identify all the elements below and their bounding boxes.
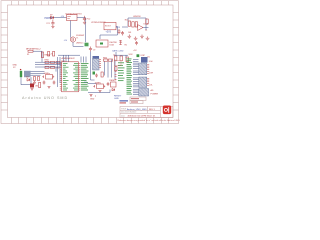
ground: [31, 89, 34, 91]
net labels (IC3 right): [81, 63, 89, 90]
voltage regulator IC1 NCP1117ST50T3G: [66, 13, 83, 20]
title block: [118, 106, 197, 123]
reset button S1: [110, 80, 117, 87]
power section: [45, 13, 118, 51]
IC ATmega16U2 IC3: [61, 57, 79, 92]
svg-text:GND: GND: [90, 99, 95, 101]
wire: [58, 57, 61, 87]
resistor R5: [113, 55, 117, 61]
ground: [83, 22, 86, 24]
resistor R14: [119, 41, 121, 45]
svg-text:SCK: SCK: [129, 54, 134, 56]
wire: [31, 72, 45, 76]
USB connector X2: [13, 65, 32, 85]
svg-text:4/18/2012 3:10:14 PM Sheet:: 4/18/2012 3:10:14 PM Sheet: 1/1: [128, 114, 156, 117]
resistor RN1A: [41, 52, 50, 58]
comparator section: [116, 16, 149, 47]
svg-text:NCP1117ST50T3G: NCP1117ST50T3G: [66, 13, 83, 15]
svg-text:POWER: POWER: [151, 94, 159, 96]
svg-text:IC5A: IC5A: [144, 22, 149, 25]
svg-text:Date:: Date:: [121, 114, 126, 117]
varistor Z2: [53, 52, 55, 57]
svg-text:T1: T1: [76, 38, 78, 40]
resistor network RN4: [103, 58, 113, 62]
transistor T1 FDN340P: [70, 35, 85, 44]
node +5V: [85, 43, 89, 47]
resistor R10: [125, 20, 131, 27]
resistor R2: [101, 72, 103, 77]
ground: [51, 26, 54, 28]
mcu section: [58, 52, 122, 101]
wire: [88, 83, 97, 85]
logo: [163, 106, 171, 115]
wire: [50, 17, 67, 19]
resistor network RN3: [45, 60, 61, 64]
note box 3: [120, 100, 129, 103]
svg-text:PC2: PC2: [87, 18, 91, 20]
varistor Z3: [34, 77, 36, 81]
svg-text:IOH: IOH: [150, 73, 154, 75]
svg-text:+3V3: +3V3: [106, 32, 112, 34]
capacitor C3: [91, 96, 96, 97]
voltage regulator IC4 LP2985-33DBVR: [91, 22, 116, 30]
wire: [71, 18, 86, 43]
capacitor C11: [135, 41, 138, 45]
svg-text:GND: GND: [114, 98, 119, 100]
header IOL: [139, 77, 147, 88]
usb section: [13, 49, 69, 100]
net labels (headers left): [118, 59, 132, 95]
varistor Z4: [38, 77, 40, 81]
resistor R4: [39, 83, 41, 88]
capacitor C9: [89, 47, 95, 52]
resistor R11: [132, 22, 134, 27]
ground: [134, 37, 138, 41]
svg-text:USBVCC: USBVCC: [76, 43, 84, 45]
svg-text:GATE_CMD: GATE_CMD: [112, 50, 124, 53]
varistor Z1: [48, 52, 54, 57]
wire: [91, 60, 116, 81]
capacitor C4: [107, 82, 110, 86]
ground: [90, 95, 93, 97]
ground: [140, 35, 144, 39]
svg-text:PC1: PC1: [47, 23, 51, 25]
pin stubs IOH: [147, 64, 149, 73]
svg-text:R10: R10: [125, 20, 128, 22]
fuse F1 MF-MSMF050-2: [26, 49, 41, 56]
ground: [48, 87, 51, 89]
pin stubs IOL: [147, 78, 149, 86]
svg-text:R6: R6: [125, 44, 127, 46]
note box 2: [130, 101, 143, 104]
svg-text:R1: R1: [148, 57, 150, 59]
ground: [128, 35, 132, 39]
note box 1: [130, 97, 146, 101]
pin stubs ICSP1: [99, 59, 101, 68]
svg-text:REV: 3: REV: 3: [149, 109, 155, 111]
svg-text:C9: C9: [93, 49, 95, 51]
ground: [33, 81, 36, 84]
svg-text:Document Number:: Document Number:: [121, 111, 137, 114]
node +5V: [137, 54, 140, 57]
node +5V: [93, 72, 96, 75]
pin stubs (left column): [115, 72, 117, 80]
svg-text:RESET: RESET: [110, 80, 117, 82]
resistor R13: [146, 19, 148, 24]
wire: [73, 42, 84, 46]
page frame (decorative): [1, 1, 179, 124]
wire: [143, 27, 149, 29]
resistor R6: [120, 56, 122, 61]
svg-text:IOH: IOH: [149, 61, 153, 63]
op-amp IC5B LMV358 comparator cell: [96, 40, 117, 47]
svg-text:Arduino UNO SMD: Arduino UNO SMD: [22, 96, 68, 100]
svg-text:1k: 1k: [113, 55, 115, 57]
crystal Y2 16MHz: [42, 73, 54, 79]
resistor network RN2: [45, 66, 60, 69]
diode D3: [112, 89, 115, 91]
header IOH: [139, 61, 153, 75]
svg-text:IC5B: IC5B: [110, 45, 115, 47]
svg-text:GND: GND: [13, 65, 18, 67]
jumper RESET-EN: [114, 61, 121, 66]
svg-text:RESET: RESET: [114, 96, 122, 98]
wire: [122, 26, 128, 28]
wire: [133, 60, 139, 95]
wire: [128, 18, 146, 30]
wire: [33, 51, 42, 59]
crystal Q1 16MHz: [93, 82, 105, 88]
pin name rows (IC3 right): [73, 63, 79, 90]
resistor R7: [126, 57, 128, 62]
capacitor C7: [95, 74, 98, 78]
resistor R12: [135, 22, 137, 27]
wire: [100, 27, 118, 40]
svg-text:Arduino_UNO_SMD: Arduino_UNO_SMD: [127, 108, 147, 111]
wire: [88, 90, 110, 93]
svg-text:XT1: XT1: [84, 82, 87, 84]
capacitor C10: [121, 31, 124, 36]
diode D2: [26, 77, 30, 82]
wire: [35, 59, 62, 72]
pin name rows (IC3 left): [63, 63, 69, 90]
pin stubs IC3: [60, 63, 80, 90]
capacitor C8: [118, 29, 121, 34]
op-amp IC5A LMV358: [133, 16, 149, 32]
resistor R8: [115, 67, 117, 71]
capacitor C6: [53, 81, 56, 85]
wire: [58, 55, 86, 62]
svg-text:IN OUT: IN OUT: [105, 26, 111, 28]
headers section: [112, 50, 159, 104]
svg-text:LMV358: LMV358: [133, 16, 141, 18]
capacitor PC1: [47, 20, 55, 26]
LED ON L1: [30, 84, 39, 88]
capacitor C5: [43, 81, 46, 85]
svg-text:TITLE:: TITLE:: [121, 109, 127, 111]
diode D1 M7: [50, 14, 54, 19]
header AD POWER: [139, 89, 159, 97]
ICSP header ICSP1: [91, 52, 100, 71]
header JP3 (dark top): [141, 57, 148, 63]
svg-text:ICSP: ICSP: [141, 55, 146, 57]
svg-text:Reference designs are provided: Reference designs are provided "as is" a…: [118, 119, 181, 122]
capacitor PC2: [83, 16, 90, 22]
ground: [146, 37, 150, 41]
wire: [114, 52, 128, 58]
ground: [99, 91, 102, 93]
